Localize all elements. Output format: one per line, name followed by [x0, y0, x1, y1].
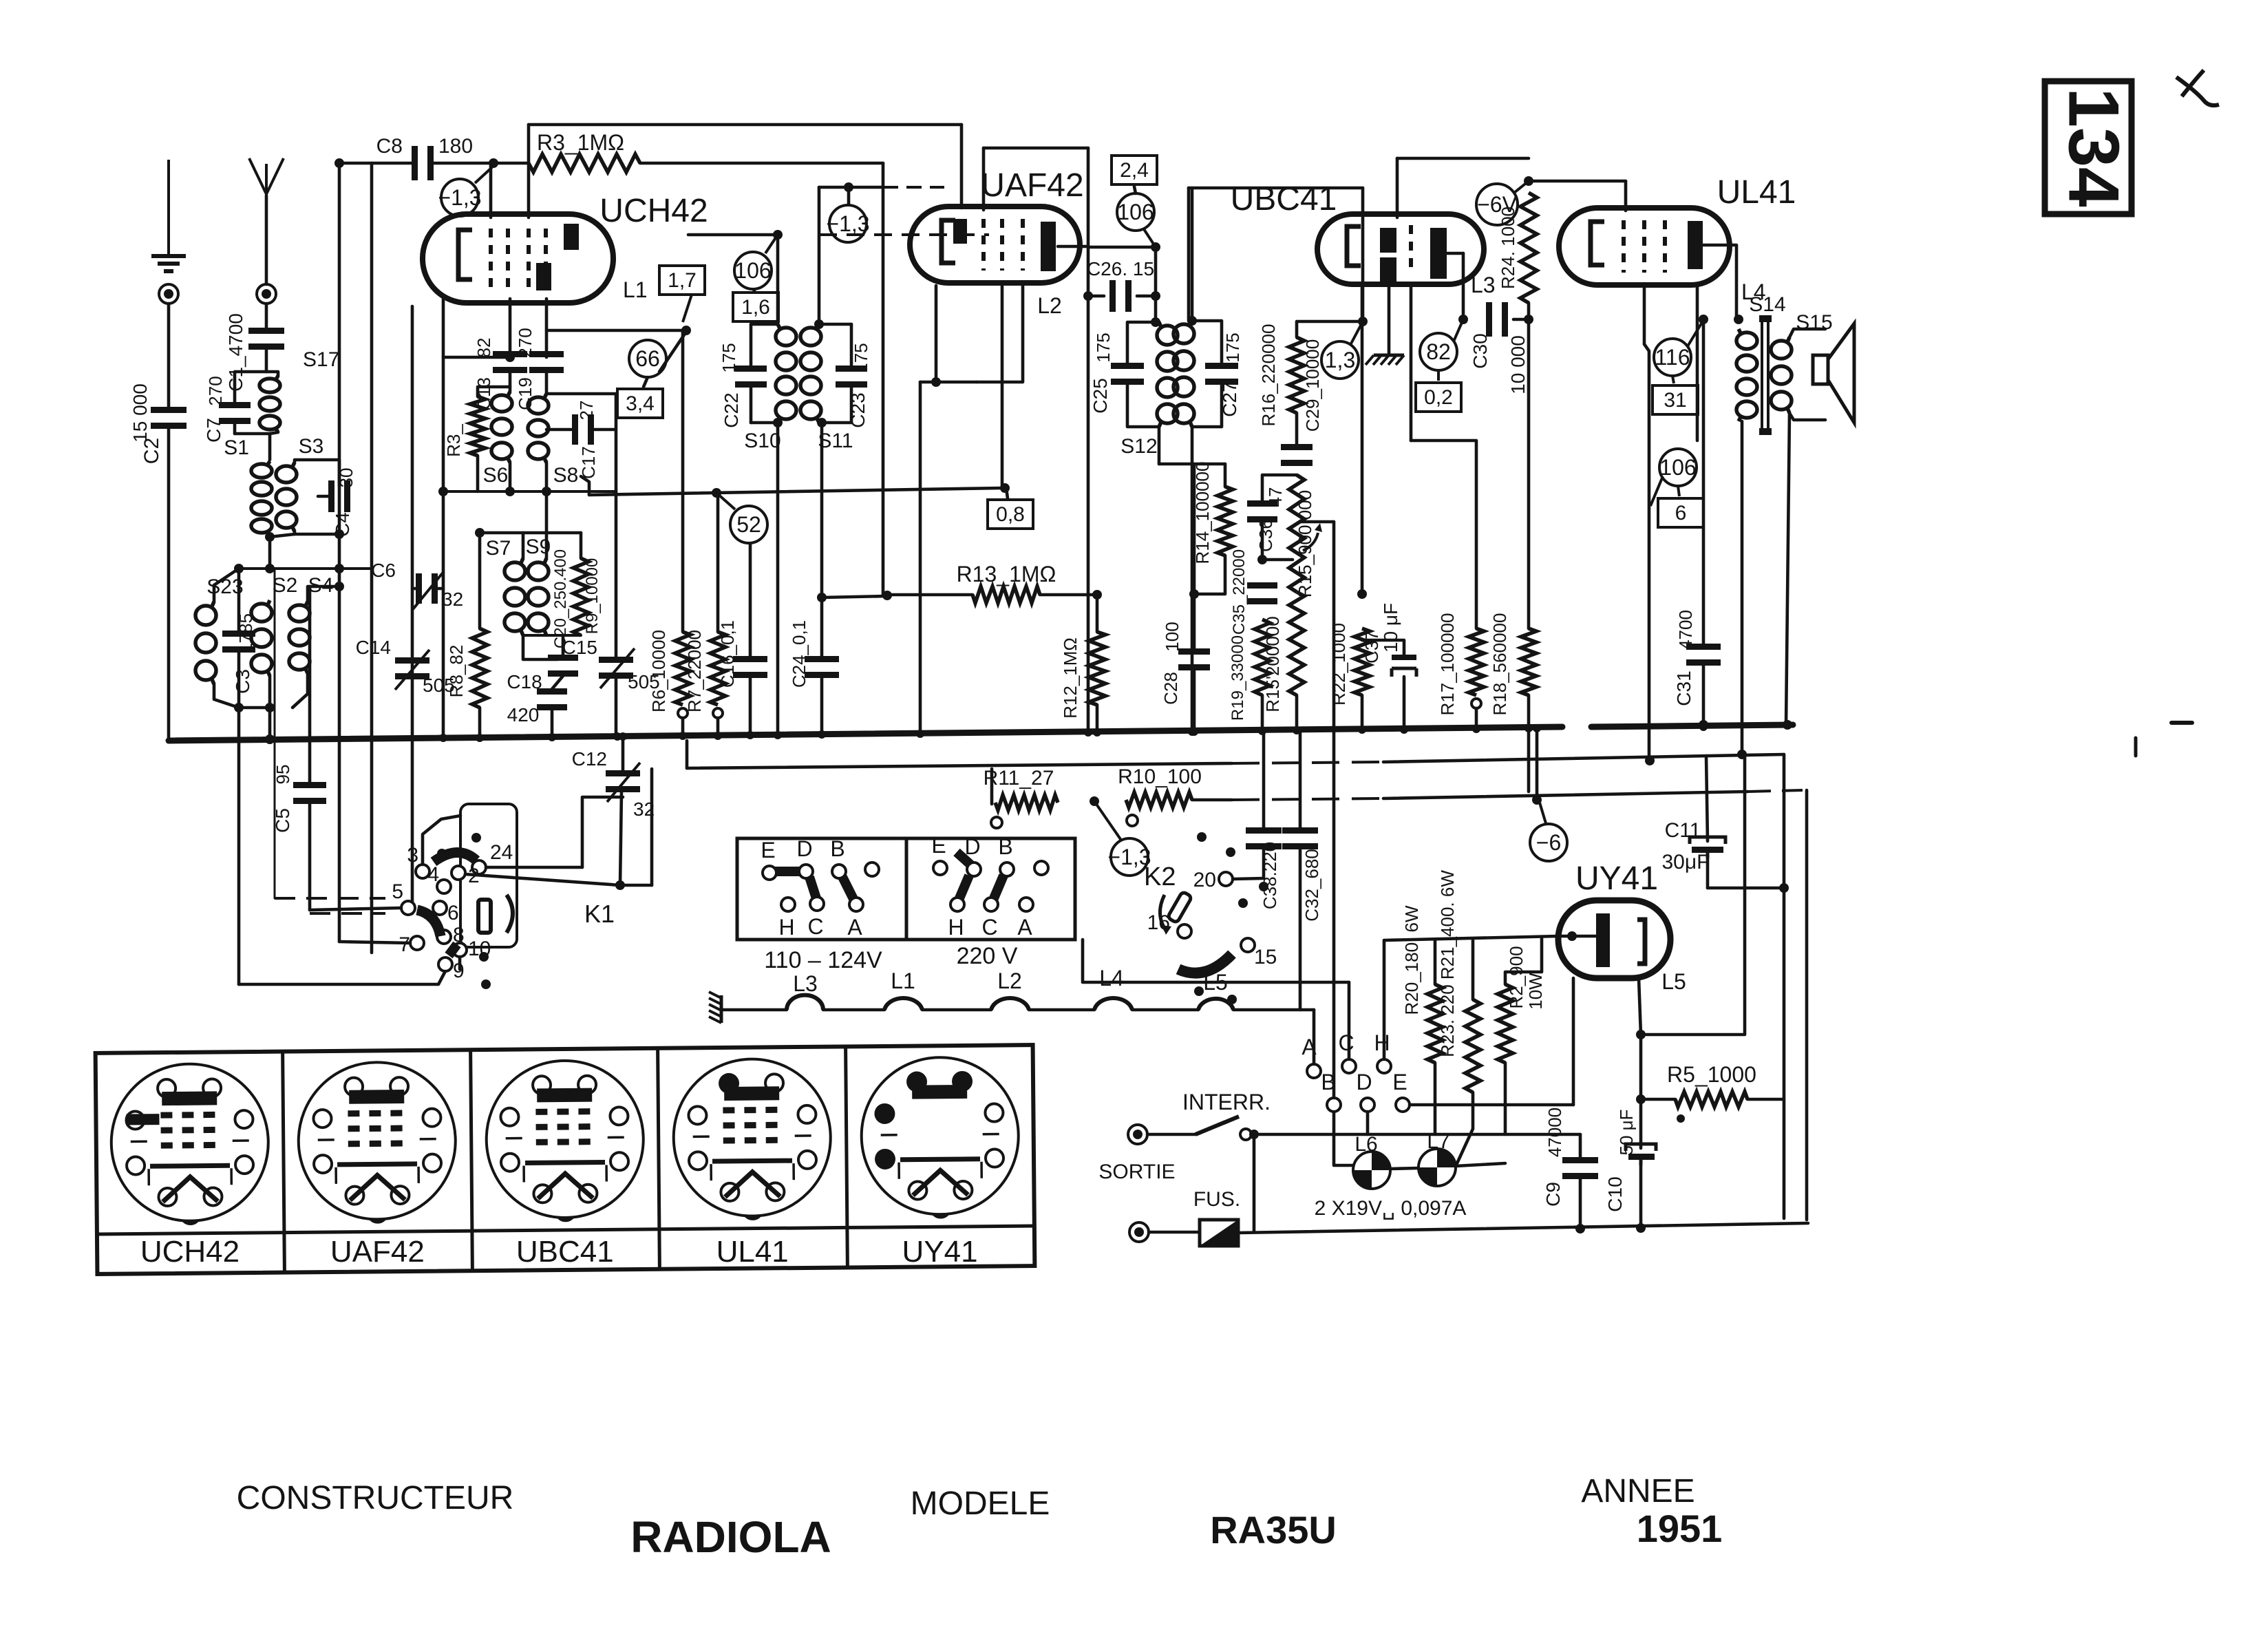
wire UBC41 top to right [1397, 157, 1529, 160]
node S1 bottom [265, 532, 275, 542]
svg-text:C9: C9 [1542, 1182, 1564, 1207]
svg-text:UBC41: UBC41 [1231, 181, 1337, 218]
value box 1,7 [659, 266, 705, 295]
wire R14 top stub [1224, 464, 1227, 487]
svg-text:4: 4 [427, 863, 439, 886]
node S2 bus [265, 734, 275, 744]
capacitor C28 [1178, 648, 1210, 670]
K1 pin 3 [416, 865, 429, 878]
capacitor C30 [1486, 302, 1508, 337]
K2 position dot 5 [1194, 986, 1204, 996]
node right top [334, 564, 344, 573]
resistor R19 [1255, 619, 1270, 695]
svg-text:R7_22000: R7_22000 [684, 630, 705, 712]
svg-text:270: 270 [205, 376, 226, 405]
wire UAF42 row y555 [920, 381, 977, 384]
capacitor C14 variable [395, 657, 429, 679]
wire x1337 down [919, 382, 922, 734]
wire S8 bottom [545, 463, 549, 491]
svg-text:C29_10000: C29_10000 [1302, 339, 1323, 432]
solder pin R7 [713, 708, 723, 718]
wire R16 bottom [1295, 413, 1299, 445]
voltage selector box 110-124V [737, 838, 906, 940]
wire R17 bottom [1475, 708, 1478, 729]
socket table divider 2 [471, 1050, 473, 1271]
wire C up [1348, 982, 1351, 1059]
chassis ground heater chain [709, 992, 721, 1023]
svg-text:L3: L3 [1471, 273, 1496, 297]
svg-text:52: 52 [736, 512, 761, 537]
wire C3 top [237, 569, 241, 632]
resistor R9 [573, 558, 588, 635]
resistor R14 [1218, 487, 1233, 555]
svg-text:2,4: 2,4 [1120, 159, 1149, 182]
wire S11 feed down [818, 187, 821, 324]
resistor R10 100 [1126, 792, 1192, 807]
K1 pin 24 [472, 860, 486, 874]
bus junction x1337 [916, 730, 924, 738]
wire C37 top [1362, 640, 1404, 657]
node S12 top [1151, 317, 1160, 327]
lamp L7 [1419, 1149, 1456, 1186]
handwritten check mark [2176, 70, 2219, 105]
wire tap to R15 [1262, 558, 1293, 562]
value box 3,4 [617, 389, 663, 418]
wire C6 left [412, 587, 416, 591]
wire vertical x450 down [308, 586, 312, 783]
node K1-2 C12 [615, 880, 625, 890]
bus junction x1130 [774, 731, 782, 739]
selector220 pin D [967, 862, 981, 876]
coil S14 primary [1736, 329, 1757, 421]
trimmer arrow C6 [413, 571, 444, 609]
node UY41 chain R5 [1636, 1094, 1646, 1104]
svg-text:R3_1MΩ: R3_1MΩ [537, 130, 624, 155]
svg-text:10W: 10W [1525, 973, 1546, 1010]
resistor R2 900 10W [1498, 984, 1513, 1063]
svg-text:L2: L2 [997, 968, 1022, 993]
svg-text:106: 106 [734, 258, 771, 283]
wire R4 bottom join [476, 456, 480, 491]
svg-text:6: 6 [1675, 502, 1687, 525]
wire UL41 anode-screen down [1696, 285, 1699, 441]
wire bus stub right [2171, 721, 2192, 725]
wire UCH42 grid3 up [527, 125, 531, 218]
svg-text:10 μF: 10 μF [1380, 603, 1401, 653]
wire L6-L7 [1390, 1168, 1419, 1169]
capacitor C3 [222, 631, 255, 653]
selector110 pin C [810, 897, 824, 911]
coil S2 [251, 600, 272, 676]
callout 66 line [659, 334, 685, 372]
svg-text:R10_100: R10_100 [1118, 765, 1202, 788]
svg-text:FUS.: FUS. [1193, 1188, 1240, 1211]
pin D [1361, 1098, 1374, 1112]
voltage bubble 106 (UL41 screen) [1659, 449, 1697, 486]
wire UL41 top wire [1529, 180, 1626, 183]
svg-text:INTERR.: INTERR. [1182, 1090, 1271, 1114]
capacitor C22 [735, 366, 767, 388]
svg-text:UCH42: UCH42 [140, 1235, 240, 1269]
K1 outline box [460, 804, 517, 947]
svg-text:L5: L5 [1661, 969, 1686, 994]
wire S17 to S1 [268, 434, 272, 460]
svg-text:S12: S12 [1120, 435, 1157, 458]
capacitor C15 variable [599, 657, 633, 679]
wire C1 to node C7/S17 [265, 349, 268, 372]
coil S4 [289, 602, 310, 673]
svg-text:220 V: 220 V [957, 943, 1018, 969]
terminal antenna [257, 284, 276, 304]
wire L7 right [1456, 1163, 1505, 1166]
svg-text:1,3: 1,3 [1325, 348, 1355, 372]
wire R19 bottom [1261, 695, 1264, 731]
wire top horizontal C8 row [339, 162, 412, 165]
rail 3 left hook [990, 769, 994, 804]
wire x1727 down [1187, 188, 1191, 321]
node C30 right [1524, 315, 1533, 324]
resistor R7 [710, 632, 725, 705]
resistor R13 [973, 586, 1040, 603]
wire UAF42 top wire [984, 147, 1088, 150]
K1 wire 10 down [458, 957, 462, 969]
svg-text:R19_33000: R19_33000 [1229, 635, 1247, 721]
wire C20 top [562, 635, 565, 655]
wire S3 bottom [295, 531, 339, 534]
switch INTERR contact [1240, 1129, 1251, 1140]
callout 52 diag [716, 493, 735, 509]
bus chassis rail [169, 727, 1562, 741]
wire UBC41 frame top [1189, 187, 1363, 190]
wire R18 bottom [1527, 695, 1531, 792]
K1 rotor arc 5-8 [417, 910, 440, 936]
coil S3 [276, 463, 297, 531]
svg-text:D: D [796, 836, 812, 861]
svg-text:S1: S1 [224, 436, 249, 459]
wire R7 top [716, 494, 720, 632]
wire coil bottoms row [443, 490, 616, 493]
selector220 pin C [984, 898, 998, 911]
wire earth terminal to C2 [167, 304, 171, 407]
svg-text:180: 180 [438, 135, 473, 158]
node C31 bus [1699, 720, 1708, 730]
wire sortie bottom to fuse [1149, 1231, 1200, 1234]
wire S1 join S3 [270, 534, 295, 537]
voltage bubble -1,3 (UAF42 grid) [826, 205, 869, 242]
voltage bubble 106 (UCH42 anode) [734, 252, 772, 289]
value box 0,2 [1416, 383, 1461, 412]
svg-text:C18: C18 [507, 671, 542, 692]
wire S9 top [545, 533, 549, 558]
wire S12 to R14 row [1159, 463, 1225, 466]
selector220 link B-C [994, 876, 1003, 898]
wire R20 bottom [1434, 1063, 1437, 1134]
svg-text:R13_1MΩ: R13_1MΩ [957, 562, 1056, 586]
socket table divider 4 [846, 1046, 848, 1267]
wire R20 top [1434, 940, 1437, 984]
wire C38 top [1262, 731, 1266, 829]
callout -1,3 K2 diag [1094, 801, 1122, 841]
svg-text:L1: L1 [891, 968, 915, 993]
K1 wire bottom 9 [239, 971, 445, 984]
callout 106 diag [765, 237, 776, 253]
selector220 link E-D [957, 852, 970, 865]
callout 1,3 diag [1350, 321, 1363, 345]
wire R13 left [883, 593, 973, 597]
pin E [1396, 1098, 1410, 1112]
svg-text:R17_100000: R17_100000 [1437, 613, 1458, 716]
wire C18 to bus [551, 710, 554, 737]
node R13 left [882, 591, 892, 600]
choke L5 [1198, 999, 1233, 1010]
wire S2 bottom [268, 676, 272, 708]
wire S12 box top [1127, 322, 1159, 363]
bubble -1,3 link [475, 167, 492, 183]
K2 pin 15 [1241, 938, 1255, 952]
tube UL41 [1559, 208, 1730, 285]
svg-text:31: 31 [1664, 389, 1686, 412]
callout 106 diag right [1144, 229, 1156, 247]
wire C6 right [438, 587, 443, 591]
rail 3 dashed far right [1747, 790, 1803, 792]
K2 position dot 2 [1226, 847, 1235, 857]
socket label band UL41 [659, 1227, 847, 1229]
resistor R11 27 [995, 795, 1058, 810]
node S14 rail2 [1737, 750, 1747, 759]
wire C12 down [620, 792, 621, 885]
svg-text:C17: C17 [578, 446, 599, 479]
wire C11 bottom row [1708, 887, 1784, 890]
K1 wire 2 riser up [650, 769, 654, 885]
bus junction x1594 [1093, 728, 1101, 737]
solder pin R11 [991, 817, 1002, 828]
svg-text:1951: 1951 [1637, 1507, 1723, 1550]
callout 116 link [1672, 376, 1674, 383]
svg-text:UL41: UL41 [1717, 174, 1796, 211]
wire y341 dashed link [819, 233, 989, 236]
rail2 left stub [686, 741, 689, 768]
wire R15b bottom [1295, 695, 1299, 730]
svg-text:175: 175 [1093, 332, 1114, 362]
capacitor C2 [151, 407, 187, 429]
wire C17 left [546, 428, 571, 432]
selector220 pin B [1000, 862, 1014, 876]
svg-text:C31: C31 [1673, 670, 1694, 706]
svg-text:R3_: R3_ [443, 424, 464, 457]
wire R8 hang [478, 533, 482, 628]
svg-text:C: C [807, 914, 823, 939]
wire node to S2 area [268, 537, 272, 569]
bus junction x1581 [1084, 728, 1092, 737]
wire C2 to bus [167, 428, 171, 741]
svg-text:SORTIE: SORTIE [1098, 1161, 1175, 1183]
node bottom rail C9 [1575, 1224, 1585, 1233]
heater wire L1-L2 [922, 1008, 991, 1012]
svg-text:C2: C2 [140, 438, 163, 464]
wire C26 right [1137, 295, 1156, 298]
svg-text:E: E [931, 833, 946, 858]
wire UAF42 top lead2 [982, 148, 986, 210]
UY41 cathode [1637, 920, 1645, 964]
wire fuse up [1253, 1134, 1256, 1232]
svg-text:UAF42: UAF42 [981, 167, 1083, 204]
capacitor C31 [1686, 644, 1721, 666]
wire S14 bottom down [1741, 421, 1744, 754]
wire bus to rail3 x2233 [1536, 728, 1539, 800]
wire S15 bottom to speaker [1789, 413, 1825, 420]
wire C23 bottom [850, 387, 853, 423]
resistor R17 [1469, 628, 1484, 695]
wire C10 bottom [1639, 1165, 1643, 1228]
wire loop C7 S17 right [266, 372, 278, 376]
svg-text:B: B [998, 834, 1012, 859]
K2 pin 20 [1219, 872, 1233, 886]
socket table divider 3 [658, 1048, 660, 1269]
value box 2,4 [1112, 156, 1157, 184]
terminal earth [159, 284, 178, 304]
voltage selector box 220V [906, 838, 1075, 940]
wire sortie to switch [1147, 1133, 1196, 1136]
node UY41 chain 1503 [1636, 1030, 1646, 1039]
voltage bubble 82 [1420, 333, 1457, 370]
capacitor C1 [248, 328, 284, 350]
wire R22 bottom [1361, 695, 1364, 730]
rail 3 solid right [1383, 792, 1747, 798]
coil S7 [504, 558, 525, 635]
bus junction x1732 [1188, 728, 1196, 736]
svg-text:24: 24 [490, 841, 513, 864]
fuse FUS [1200, 1220, 1238, 1246]
wire C28 bottom [1193, 670, 1196, 732]
tube socket UBC41 [486, 1060, 644, 1222]
bus junction x697 [476, 734, 484, 742]
wire UBC41 grid down [1410, 287, 1413, 441]
wire UAF42 pin x1486 hook [977, 286, 1023, 382]
voltage bubble -6 [1530, 824, 1567, 861]
node C26 right [1151, 291, 1160, 301]
wire C12 top [621, 741, 625, 771]
capacitor C23 [836, 366, 867, 388]
heater wire L2-L4 [1029, 1008, 1094, 1012]
K2 wire 20 [1233, 878, 1264, 879]
terminal sortie bottom [1129, 1222, 1149, 1242]
capacitor C17 [572, 414, 594, 445]
svg-text:UY41: UY41 [902, 1235, 978, 1269]
wire C16 top [749, 544, 752, 657]
node S8 bottom [542, 487, 551, 496]
K1 wire 3 hook [423, 816, 460, 865]
node C4 bottom [334, 529, 344, 539]
node S8 anode feed [681, 326, 691, 335]
wire vertical left A to K1 [237, 708, 241, 984]
pin H [1377, 1059, 1391, 1073]
svg-text:S2: S2 [273, 574, 298, 597]
capacitor C20 [548, 655, 578, 677]
coil S17 [259, 376, 280, 432]
wire wiper down to pin B [1332, 522, 1336, 1098]
selector110 pin A [849, 898, 863, 911]
wire UL41 anode lead [1703, 245, 1736, 319]
voltage bubble -1,3 (K2) [1107, 838, 1151, 876]
resistor R24 [1520, 193, 1537, 303]
K2 position dot 6 [1227, 995, 1237, 1004]
wire top H row [1384, 936, 1558, 940]
tube socket UY41 [861, 1057, 1019, 1219]
node R16 top right [1358, 317, 1368, 326]
node interr-fuse [1249, 1130, 1259, 1139]
wire C32 top [1299, 730, 1302, 829]
K1 dot b [437, 849, 447, 858]
node x2475 top [1699, 315, 1708, 324]
K2 rotor arc [1178, 954, 1232, 973]
K1 wire 7 row [339, 942, 410, 943]
socket label band UY41 [847, 1226, 1034, 1227]
capacitor C27 [1205, 363, 1238, 385]
resistor R6 [675, 632, 690, 705]
trimmer arrow C14 [395, 650, 429, 690]
K1 pin 6 [433, 901, 447, 915]
value box 31 [1653, 385, 1698, 414]
svg-text:175: 175 [1222, 332, 1243, 362]
svg-text:C26. 15: C26. 15 [1087, 258, 1154, 279]
rail 2 right [1383, 754, 1784, 762]
K1 wire x399 [274, 569, 276, 898]
K1 pin 10 [453, 943, 467, 957]
resistor R16 [1289, 337, 1304, 413]
wire UAF42 cathode down [935, 286, 938, 382]
K1 pin 4 [437, 880, 451, 893]
wire C9 bottom [1579, 1178, 1582, 1229]
coil S11 [800, 324, 821, 423]
node C3 bottom [234, 703, 244, 712]
svg-text:R14_100000: R14_100000 [1192, 462, 1213, 564]
wire UBC41 cathode down [1361, 287, 1364, 594]
node rail3 -6 [1532, 795, 1542, 805]
wire C38 bottom [1262, 848, 1266, 877]
wire C11 top [1706, 756, 1708, 841]
socket label band UCH42 [97, 1233, 284, 1234]
svg-text:C12: C12 [572, 748, 607, 770]
callout 106 screen diag [1650, 476, 1663, 506]
choke L4 [1094, 998, 1132, 1010]
tube UY41 [1558, 900, 1670, 978]
capacitor C8 [412, 146, 434, 180]
svg-text:30μF: 30μF [1662, 851, 1710, 873]
wire R17 top [1411, 441, 1476, 628]
svg-text:C22: C22 [721, 392, 742, 427]
K1 pin 7 [410, 936, 424, 950]
node S10 feed [773, 230, 783, 240]
wire S10 bottom down [776, 423, 780, 735]
wire S8 top row [546, 392, 616, 396]
wire x1735 down [1193, 464, 1196, 650]
svg-text:S3: S3 [299, 435, 324, 458]
svg-text:−6: −6 [1536, 830, 1561, 855]
svg-text:K1: K1 [584, 900, 615, 928]
svg-text:R11_27: R11_27 [984, 767, 1054, 790]
bottom supply rail [1238, 1223, 1808, 1233]
capacitor C11 electrolytic [1690, 837, 1725, 858]
voltage bubble 116 [1654, 339, 1691, 376]
callout 106-6 link [1678, 486, 1679, 496]
wire S8 join box [545, 491, 549, 533]
wire x1679 down [1154, 247, 1158, 322]
svg-text:D: D [1356, 1070, 1372, 1094]
selector110 pin B [832, 865, 846, 878]
capacitor C32 [1282, 827, 1318, 849]
coil S8 [528, 394, 549, 463]
wire box S7 top row [480, 531, 581, 535]
